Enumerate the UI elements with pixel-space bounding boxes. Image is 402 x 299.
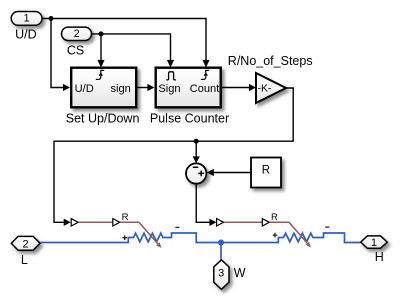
arrowhead into PS port of right resistor [209, 219, 216, 226]
wire port1 branch to U/D input [51, 19, 63, 88]
R port triangle left resistor [113, 219, 120, 226]
svg-text:1: 1 [371, 237, 377, 249]
arrowhead sign to Sign [147, 84, 154, 91]
pulse icon Sign [166, 72, 176, 80]
arrowhead R to sum [207, 169, 214, 176]
block Pulse Counter [156, 68, 221, 108]
arrowhead into PS port of left resistor [64, 219, 71, 226]
port W hexagon [214, 260, 229, 290]
inport 1 (U/D) [11, 12, 42, 26]
minus sign right resistor [325, 226, 329, 228]
svg-text:R: R [271, 212, 278, 223]
constant block R [251, 158, 281, 188]
junction dot port1 [49, 16, 54, 21]
svg-text:2: 2 [23, 238, 29, 250]
svg-text:U/D: U/D [75, 83, 94, 95]
wire Count to gain [222, 87, 249, 89]
wire sign to Sign [138, 87, 148, 89]
gain block R/No_of_Steps [256, 73, 286, 103]
plus sign right resistor [273, 233, 278, 238]
inport 2 (CS) [62, 27, 92, 40]
arrowhead into Count trigger [202, 60, 209, 68]
R port triangle right resistor [262, 219, 269, 226]
svg-text:1: 1 [24, 12, 30, 24]
svg-text:-K-: -K- [258, 83, 272, 94]
arrowhead into U/D input [63, 84, 70, 91]
sum plus sign [198, 171, 204, 177]
sum minus sign [193, 166, 198, 168]
wire port2 branch to SetUpDown trigger [100, 34, 102, 60]
wiper arrow right resistor [269, 222, 307, 243]
trigger icon SetUpDown [96, 70, 104, 79]
svg-text:L: L [21, 253, 28, 267]
junction dot W [218, 240, 224, 246]
svg-text:R: R [262, 164, 270, 176]
svg-text:2: 2 [74, 28, 80, 40]
wire sum output to right resistor PS port [196, 184, 210, 223]
wire gain output feedback [54, 88, 293, 222]
wiper arrow left resistor [120, 222, 158, 244]
port L hexagon [11, 236, 40, 250]
wire feedback branch to sum [195, 141, 197, 157]
junction dot feedback [194, 139, 199, 144]
port H hexagon [361, 236, 388, 248]
minus sign left resistor [175, 226, 179, 228]
plus sign left resistor [122, 235, 127, 240]
svg-text:R/No_of_Steps: R/No_of_Steps [228, 54, 313, 68]
svg-text:CS: CS [67, 43, 84, 57]
svg-text:H: H [375, 250, 384, 264]
wire R constant to sum [213, 172, 251, 174]
svg-text:sign: sign [110, 83, 130, 95]
svg-text:Sign: Sign [158, 83, 180, 95]
svg-text:U/D: U/D [15, 28, 37, 42]
sum block [186, 163, 206, 183]
wire port2 to Sign trigger [92, 34, 171, 60]
svg-text:Set Up/Down: Set Up/Down [66, 112, 140, 126]
PS input triangle left resistor [71, 219, 78, 226]
PS wire left resistor [79, 221, 113, 223]
block Set Up/Down [71, 68, 136, 108]
trigger icon Count [201, 70, 209, 79]
arrowhead into SetUpDown trigger [97, 60, 104, 68]
electrical rail L to H with two variable resistors [41, 233, 361, 243]
arrowhead into Sign trigger [167, 60, 174, 68]
svg-text:Count: Count [190, 83, 220, 95]
svg-text:3: 3 [218, 268, 224, 280]
PS input triangle right resistor [217, 219, 224, 226]
arrowhead Count to gain [249, 84, 256, 91]
svg-text:W: W [234, 266, 246, 280]
wire to W port [220, 243, 222, 260]
arrowhead into sum top [193, 156, 200, 163]
PS wire right resistor [224, 221, 262, 223]
junction dot port2 [99, 31, 104, 36]
wire port1 to Count trigger [42, 19, 206, 61]
svg-text:Pulse Counter: Pulse Counter [150, 112, 229, 126]
